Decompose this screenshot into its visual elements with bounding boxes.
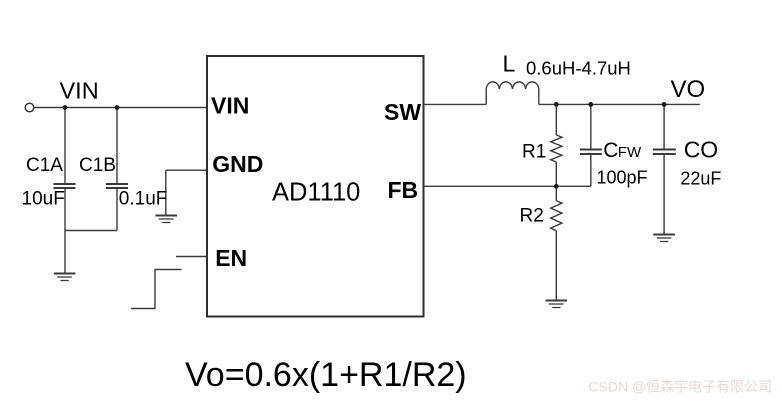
svg-text:CO: CO [684,137,719,163]
svg-text:EN: EN [215,245,247,271]
svg-text:L: L [503,51,516,77]
svg-text:GND: GND [212,151,263,177]
svg-text:C1A: C1A [26,155,63,176]
svg-text:SW: SW [384,99,421,125]
svg-text:R2: R2 [520,206,544,227]
svg-text:22uF: 22uF [680,169,721,189]
svg-text:FW: FW [618,144,642,161]
svg-text:0.1uF: 0.1uF [119,189,168,210]
svg-text:C: C [603,139,618,162]
svg-text:FB: FB [388,177,419,203]
svg-text:VIN: VIN [60,78,99,104]
svg-text:VIN: VIN [211,93,249,119]
svg-text:VO: VO [671,76,706,103]
svg-text:R1: R1 [522,142,546,163]
svg-text:AD1110: AD1110 [272,178,360,206]
svg-text:0.6uH-4.7uH: 0.6uH-4.7uH [526,58,631,79]
svg-text:CSDN @恒森宇电子有限公司: CSDN @恒森宇电子有限公司 [588,379,772,395]
svg-text:Vo=0.6x(1+R1/R2): Vo=0.6x(1+R1/R2) [185,356,467,394]
svg-text:C1B: C1B [79,155,116,176]
svg-text:100pF: 100pF [597,168,648,188]
svg-text:10uF: 10uF [22,189,65,210]
